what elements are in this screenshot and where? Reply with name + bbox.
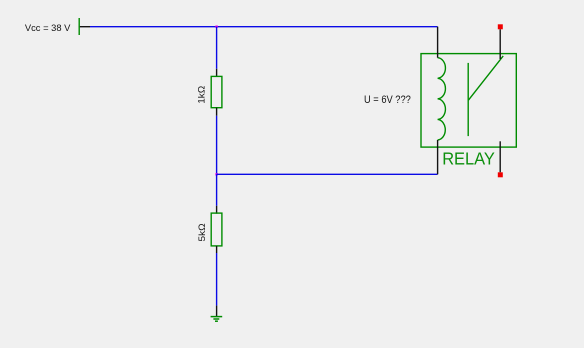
pin ground xyxy=(216,306,218,317)
svg-text:RELAY: RELAY xyxy=(442,148,495,168)
wire R2 top xyxy=(216,174,218,206)
wire middle horizontal xyxy=(217,173,438,175)
pin relay contact top xyxy=(499,29,501,59)
svg-text:1kΩ: 1kΩ xyxy=(197,86,208,104)
port Vcc terminal xyxy=(79,18,90,35)
terminal pad bottom xyxy=(498,172,503,177)
relay coil xyxy=(438,58,446,140)
pin relay contact bottom xyxy=(499,141,501,172)
resistor R1 xyxy=(211,76,222,107)
pin R2 top xyxy=(216,206,218,214)
wire R1 to junction xyxy=(216,116,218,175)
junction node top xyxy=(215,26,217,28)
junction node middle xyxy=(215,173,217,175)
pin relay coil bottom xyxy=(437,140,439,174)
wire R2 to ground xyxy=(216,253,218,306)
terminal pad top xyxy=(498,24,503,29)
pin R1 bottom xyxy=(216,108,218,116)
svg-text:5kΩ: 5kΩ xyxy=(197,223,208,241)
svg-text:Vcc = 38 V: Vcc = 38 V xyxy=(25,23,71,34)
pin R1 top xyxy=(216,69,218,77)
pin relay coil top xyxy=(437,27,439,58)
relay box U1 xyxy=(421,54,516,148)
svg-text:U = 6V ???: U = 6V ??? xyxy=(364,94,411,106)
pin R2 bottom xyxy=(216,246,218,253)
resistor R2 xyxy=(211,213,222,246)
relay switch blade xyxy=(468,56,503,100)
relay switch armature line xyxy=(467,63,469,136)
wire R1 top xyxy=(216,27,218,69)
ground xyxy=(211,317,223,322)
wire top horizontal xyxy=(90,26,438,28)
